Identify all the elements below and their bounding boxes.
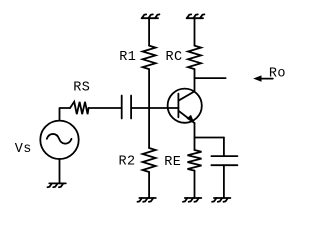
arrow Ro (pointing left): [253, 75, 273, 81]
wire base: [131, 107, 178, 109]
ground (below RE): [183, 198, 201, 202]
svg-text:RE: RE: [164, 155, 181, 170]
wire emitter node to bypass cap: [195, 137, 224, 139]
supply rail symbol (above R1): [142, 14, 160, 18]
resistor R1: [143, 46, 156, 70]
ground (below bypass cap): [212, 198, 230, 202]
capacitor C1 (coupling): [122, 96, 131, 119]
wire collector node output stub: [195, 77, 226, 79]
source Vs (sine): [40, 121, 78, 159]
supply rail symbol (above RC): [187, 14, 205, 18]
wire emitter down: [194, 123, 196, 138]
wire bypass cap top: [223, 138, 225, 157]
svg-text:Vs: Vs: [15, 142, 32, 157]
ground (below Vs): [48, 183, 66, 187]
resistor RE: [188, 150, 202, 171]
capacitor CE (bypass): [211, 156, 237, 165]
svg-text:RS: RS: [73, 80, 90, 95]
wire RE to ground: [194, 171, 196, 198]
resistor RC: [188, 46, 201, 70]
svg-text:R1: R1: [119, 50, 136, 65]
wire bypass cap bottom to ground: [223, 165, 225, 198]
wire supply to R1: [148, 18, 150, 45]
svg-text:R2: R2: [119, 155, 136, 170]
svg-text:RC: RC: [166, 50, 183, 65]
wire R2 to ground: [148, 172, 150, 198]
wire RS to coupling cap: [89, 107, 122, 109]
svg-text:Ro: Ro: [269, 67, 286, 82]
ground (below R2): [138, 198, 156, 202]
wire R1 to base node and down to R2: [148, 69, 150, 148]
wire RC to collector: [194, 69, 196, 91]
resistor R2: [143, 148, 156, 172]
wire supply to RC: [194, 18, 196, 45]
wire Vs top to RS corner: [60, 108, 71, 121]
wire emitter to RE: [194, 138, 196, 151]
resistor RS: [70, 102, 89, 114]
wire Vs bottom to ground: [59, 159, 61, 183]
transistor Q1: [168, 89, 202, 124]
